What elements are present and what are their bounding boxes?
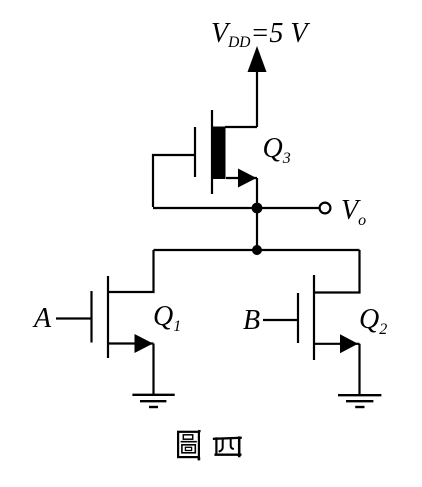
wire bus to Q2 drain	[314, 250, 360, 293]
transistor Q1	[92, 276, 154, 358]
transistor Q3	[195, 110, 257, 194]
wire Q2 source to ground	[358, 344, 360, 395]
svg-text:A: A	[32, 303, 52, 334]
terminal Vo	[320, 203, 331, 214]
wire Q3 source riser	[256, 178, 258, 208]
power VDD arrow	[248, 46, 267, 127]
wire Q3 gate feedback	[153, 155, 195, 207]
node drain bus junction	[252, 245, 262, 255]
node output junction	[252, 203, 263, 214]
wire drain bus	[154, 249, 360, 251]
wire output net	[153, 207, 319, 209]
wire Q1 source to ground	[152, 344, 154, 395]
ground below Q2	[338, 395, 381, 407]
svg-text:VDD=5 V: VDD=5 V	[211, 18, 310, 51]
wire bus to Q1 drain	[108, 250, 154, 292]
wire input A to Q1 gate	[56, 317, 92, 319]
wire junction link	[256, 208, 258, 250]
caption 圖四	[178, 431, 241, 461]
svg-text:B: B	[243, 305, 260, 336]
ground below Q1	[132, 395, 174, 407]
wire Q3 drain lead	[225, 126, 257, 128]
wire input B to Q2 gate	[263, 319, 298, 321]
transistor Q2	[298, 275, 360, 360]
